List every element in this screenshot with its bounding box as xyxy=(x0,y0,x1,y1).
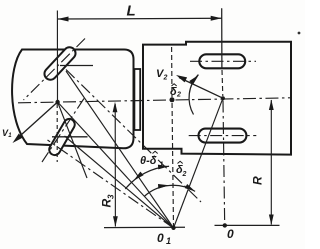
dimension R3 line xyxy=(114,104,116,227)
ground line at O1 xyxy=(104,226,185,228)
rear wheel slot S1 axis xyxy=(190,60,256,62)
svg-text:L: L xyxy=(127,3,136,20)
extension line right / rear centerline vertical xyxy=(221,8,223,68)
rear body outline xyxy=(143,42,291,155)
node joint point xyxy=(170,97,175,102)
svg-text:3: 3 xyxy=(107,194,116,199)
label delta2 lower xyxy=(178,161,183,163)
dimension L left arrow xyxy=(58,17,69,22)
wheel W1 perpendicular (dash-dot toward O) xyxy=(66,70,201,203)
wheel W1 axis (dash-dot) xyxy=(24,39,86,101)
vertical dash-dot joint to O xyxy=(223,101,225,226)
svg-text:2: 2 xyxy=(182,171,187,178)
dimension R line xyxy=(270,100,272,225)
wheel W2 axis (dash-dot) xyxy=(42,99,84,163)
dashed vertical below front axle center xyxy=(56,104,58,162)
wheel W2 steer reference line xyxy=(52,136,88,138)
centerline (dash-dot through both bodies) xyxy=(18,98,291,103)
svg-text:1: 1 xyxy=(166,236,171,246)
angle arc delta2 at articulation point xyxy=(189,75,198,115)
node O xyxy=(223,223,227,227)
svg-text:δ: δ xyxy=(170,86,177,98)
radius line O1 to front axle center xyxy=(58,102,174,228)
extension line left (to front axle point) xyxy=(56,11,58,103)
rear vertical dashes above joint xyxy=(221,70,224,96)
svg-text:1: 1 xyxy=(160,162,164,169)
rear wheel slot S2 xyxy=(199,129,247,143)
svg-text:1: 1 xyxy=(8,133,12,139)
label delta2 upper xyxy=(172,84,177,86)
rear wheel slot S1 xyxy=(199,54,245,68)
dimension L right arrow xyxy=(211,16,222,21)
wheel W1 (front-left tyre) xyxy=(42,45,78,82)
label R3 (rotated) xyxy=(100,194,116,208)
angle arc theta-delta1 at O1 xyxy=(125,166,169,189)
rear wheel slot S2 axis xyxy=(189,135,257,137)
front body lateral axis line xyxy=(58,102,87,178)
node O1 xyxy=(171,226,175,230)
svg-text:θ-δ: θ-δ xyxy=(140,155,157,167)
radius line O1 to wheel W2 xyxy=(65,136,174,228)
node articulation point C xyxy=(221,96,225,100)
svg-text:R: R xyxy=(251,176,265,185)
velocity vector V2 xyxy=(179,78,223,99)
label R (rotated) xyxy=(251,176,265,185)
front body outline xyxy=(12,50,133,149)
dimension L line xyxy=(58,17,222,20)
svg-text:0: 0 xyxy=(157,231,164,245)
dashed vertical above joint point xyxy=(171,47,173,97)
svg-text:2: 2 xyxy=(176,92,181,99)
ground line at O xyxy=(215,224,280,226)
radius line O1 to wheel W1 xyxy=(66,71,174,228)
wheel W2 (front-right tyre) xyxy=(47,117,77,157)
dash-dot axle line from O1 xyxy=(48,140,174,228)
dashed vertical O1 to joint point xyxy=(172,99,174,228)
radius line O1 to articulation point C xyxy=(174,98,223,228)
node front axle center xyxy=(55,100,59,104)
velocity vector V1 xyxy=(16,102,58,140)
label theta-delta1 xyxy=(153,151,158,153)
svg-text:2: 2 xyxy=(163,75,168,82)
hitch bar xyxy=(134,69,140,130)
angle arc delta2 at O1 xyxy=(145,185,195,196)
svg-text:0: 0 xyxy=(227,227,234,241)
speck xyxy=(298,32,301,35)
wheel W1 steer reference line xyxy=(60,65,93,67)
